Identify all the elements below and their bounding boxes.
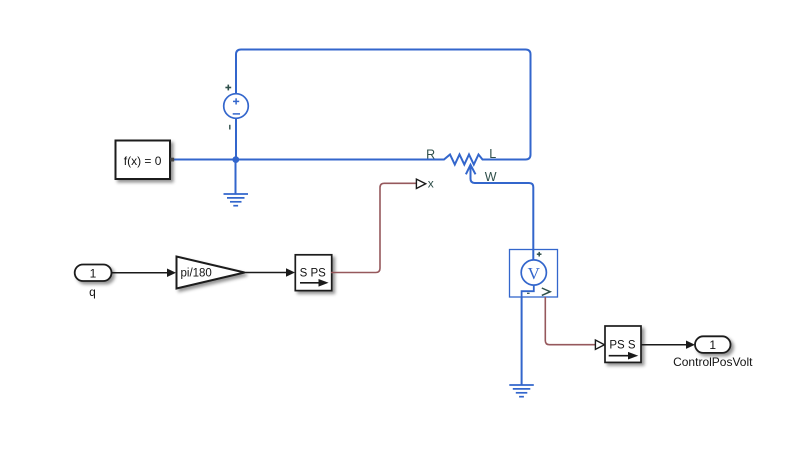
svg-text:R: R bbox=[426, 148, 435, 162]
PS output port of sensor bbox=[542, 288, 550, 295]
svg-text:x: x bbox=[428, 177, 434, 191]
gain block pi/180 bbox=[177, 257, 245, 289]
outport 1 ControlPosVolt bbox=[673, 336, 753, 369]
svg-text:L: L bbox=[489, 147, 496, 161]
PS input port arrow into PS-S converter bbox=[595, 340, 604, 349]
signal wire: PS S converter to outport bbox=[641, 344, 687, 346]
svg-text:W: W bbox=[485, 170, 497, 184]
ground G2 bbox=[509, 385, 534, 397]
svg-text:1: 1 bbox=[90, 266, 97, 280]
node A junction bbox=[232, 156, 239, 163]
svg-text:S PS: S PS bbox=[300, 267, 327, 279]
svg-text:f(x) = 0: f(x) = 0 bbox=[124, 154, 162, 168]
zigzag resistor body bbox=[437, 155, 490, 165]
PS wire: sensor output to PS-Simulink converter bbox=[545, 297, 595, 345]
wire: voltage source bottom to node A bbox=[235, 119, 237, 160]
signal wire: inport q to gain bbox=[112, 272, 169, 274]
wire: voltage sensor negative to ground G2 bbox=[521, 297, 523, 385]
wire: voltage source top loop to potentiometer L terminal bbox=[236, 50, 531, 160]
wire: node A to ground G1 bbox=[235, 160, 237, 195]
ground G1 bbox=[224, 194, 249, 206]
wire: solver block to node A bbox=[172, 159, 236, 161]
wire: potentiometer wiper W to voltage sensor bbox=[471, 166, 534, 260]
svg-text:q: q bbox=[89, 285, 96, 299]
port x arrow bbox=[416, 179, 425, 188]
signal wire: gain to S-PS converter bbox=[245, 272, 288, 274]
voltage source V1 bbox=[224, 85, 249, 130]
voltage sensor U1 bbox=[510, 250, 558, 298]
wire: node A to potentiometer R terminal bbox=[236, 159, 437, 161]
inport 1 q bbox=[75, 265, 112, 300]
solver configuration block f(x) = 0 bbox=[116, 141, 175, 180]
svg-text:pi/180: pi/180 bbox=[181, 268, 212, 280]
potentiometer R1 bbox=[426, 147, 497, 184]
Simulink-PS converter block S PS bbox=[295, 255, 331, 291]
svg-text:V: V bbox=[528, 264, 541, 283]
svg-text:ControlPosVolt: ControlPosVolt bbox=[673, 355, 753, 369]
svg-text:1: 1 bbox=[709, 338, 716, 352]
svg-text:PS S: PS S bbox=[609, 340, 636, 352]
PS-Simulink converter block PS S bbox=[605, 326, 641, 362]
PS wire: S PS converter to port x bbox=[331, 183, 416, 272]
wiper arrow bbox=[466, 165, 476, 175]
